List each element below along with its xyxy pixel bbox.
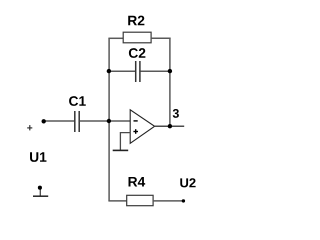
wire: top feedback horizontal left segment (108, 37, 123, 39)
wire: C2 branch left segment (108, 70, 135, 72)
label U2 (180, 178, 195, 187)
wire: bottom horizontal left of R4 (108, 200, 126, 202)
node input terminal dot (42, 119, 46, 123)
wire: bottom horizontal right of R4 to output terminal (153, 200, 183, 202)
pin - (inverting input mark) (134, 120, 138, 122)
node junction dot at right of C2 branch (168, 69, 172, 73)
label U1 (30, 152, 46, 162)
wire: right vertical from top feedback loop down to output (169, 38, 171, 127)
node output junction dot (pin 3) (168, 124, 172, 128)
node junction dot at left of C2 branch (107, 69, 111, 73)
pin number 3 (173, 109, 179, 118)
capacitor C2 (136, 61, 140, 82)
wire: C2 branch right segment (141, 70, 170, 72)
node junction dot at inverting input (107, 119, 111, 123)
wire: top feedback horizontal right segment (151, 37, 171, 39)
label R2 (128, 16, 144, 26)
label R4 (129, 177, 146, 186)
node output terminal dot (182, 199, 185, 202)
wire: non-inverting input stub to ground (120, 133, 130, 151)
ground (op-amp non-inverting input) (113, 149, 129, 151)
wire: main input horizontal from input dot to C1 left plate (44, 120, 74, 122)
wire: output horizontal (155, 125, 185, 127)
label C1 (69, 96, 86, 106)
resistor R2 (123, 32, 151, 43)
resistor R4 (127, 195, 153, 205)
pin + (non-inverting input mark) (133, 129, 138, 134)
capacitor C1 (75, 111, 79, 132)
label C2 (129, 48, 146, 58)
wire: C1 right plate to op-amp inverting input (80, 120, 130, 122)
op-amp triangle (130, 110, 154, 144)
ground symbol of source U1 (33, 186, 48, 197)
node + polarity mark of U1 (27, 125, 32, 130)
wire: left vertical from top feedback loop down to R4 run (108, 38, 110, 201)
